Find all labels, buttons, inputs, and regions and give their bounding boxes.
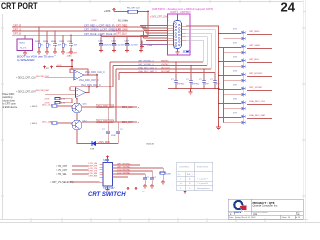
- svg-text:+5VS: +5VS: [56, 65, 62, 67]
- title block frame: [228, 199, 303, 219]
- wire shield return: [141, 41, 143, 46]
- svg-text:DDCCLK: DDCCLK: [161, 67, 171, 69]
- verticals joining rgb wires to bundle: [145, 27, 147, 33]
- svg-text:VGA_DDC_CLK: VGA_DDC_CLK: [249, 100, 266, 103]
- svg-text:47P/NC: 47P/NC: [177, 84, 185, 86]
- svg-text:QUANTA: QUANTA: [234, 211, 242, 214]
- svg-text:CRT SWITCH: CRT SWITCH: [88, 192, 126, 198]
- wire bundle 7 lines: [140, 25, 168, 27]
- title block row 2: [229, 216, 301, 219]
- wire route pin3: [186, 33, 211, 69]
- svg-text:CRT_R: CRT_R: [13, 24, 21, 27]
- svg-text:+3VS: +3VS: [104, 9, 111, 13]
- diode D78: [92, 141, 96, 146]
- svg-text:< CRT_VS (SELECT#): < CRT_VS (SELECT#): [50, 181, 74, 184]
- svg-text:47P: 47P: [216, 84, 220, 86]
- svg-text:< SEL1: < SEL1: [30, 122, 38, 125]
- svg-text:75_1%: 75_1%: [20, 48, 27, 50]
- svg-text:C264: C264: [67, 41, 73, 43]
- wire CRT_B: [12, 34, 141, 36]
- svg-text:A/B_Y: A/B_Y: [187, 173, 194, 176]
- wire VGA_DDC_CLK out: [82, 106, 137, 108]
- wire bottom rail: [92, 143, 118, 145]
- svg-text:CRT_HSYNC: CRT_HSYNC: [249, 73, 263, 75]
- svg-text:+5VS: +5VS: [44, 99, 50, 101]
- IC U23 74HCT257: [103, 163, 113, 187]
- left pin stubs: [100, 165, 104, 183]
- resistor R267: [55, 98, 60, 100]
- rail: [101, 36, 148, 38]
- svg-text:VGA_DDC_CLK: VGA_DDC_CLK: [97, 105, 114, 108]
- svg-text:DDC2B_DAT: DDC2B_DAT: [36, 89, 50, 92]
- diode pack D74: [218, 71, 272, 83]
- connector outline box (magenta): [168, 14, 191, 55]
- wire route pin4: [186, 37, 207, 66]
- svg-text:DDC_DAT: DDC_DAT: [42, 120, 53, 123]
- ground under rail: [189, 89, 193, 95]
- pin leads right: [182, 26, 187, 40]
- svg-text:Y = panel B: Y = panel B: [197, 183, 208, 185]
- resistor R271: [160, 172, 165, 174]
- wire CRT_HSYNC_C: [110, 61, 203, 63]
- svg-text:DDC_CLK: DDC_CLK: [122, 107, 133, 109]
- power arrow right: [184, 191, 186, 194]
- svg-text:R262: R262: [35, 41, 41, 43]
- svg-text:47P: 47P: [205, 84, 209, 86]
- svg-text:100K: 100K: [166, 174, 171, 176]
- diode pack D72: [218, 43, 272, 55]
- svg-text:CRT_HSYNC: CRT_HSYNC: [117, 163, 131, 165]
- wire +5VS rail: [56, 66, 72, 68]
- svg-text:< SEL0: < SEL0: [30, 105, 38, 108]
- op-amp U24A: [74, 70, 84, 80]
- svg-text:VGA_DDC_DAT: VGA_DDC_DAT: [97, 120, 114, 123]
- net texts left: [50, 165, 74, 184]
- svg-text:10U/6.3V: 10U/6.3V: [103, 45, 112, 47]
- svg-text:LCD_HSYNC: LCD_HSYNC: [117, 169, 131, 171]
- capacitor C273: [106, 131, 120, 133]
- ground bundle: [140, 45, 144, 49]
- power +5VS arrow: [71, 59, 74, 62]
- svg-text:+5VS_DDC: +5VS_DDC: [98, 142, 110, 144]
- wire vertical to ddc clk out: [109, 62, 111, 107]
- wire route pin5: [186, 40, 203, 62]
- svg-text:DDC_DAT: DDC_DAT: [122, 121, 133, 124]
- svg-text:CRT_EN: CRT_EN: [89, 176, 98, 178]
- svg-text:>: >: [138, 120, 140, 124]
- svg-text:CRT_HSYNC_C: CRT_HSYNC_C: [138, 60, 155, 62]
- diode pack D77: [218, 113, 272, 125]
- svg-text:DDC2B_CLK: DDC2B_CLK: [36, 76, 49, 78]
- resistor pack RP in purple box: [17, 39, 33, 51]
- wire purple return: [140, 44, 168, 46]
- grounds under termination row: [23, 48, 73, 56]
- svg-text:CRT_VSYNC: CRT_VSYNC: [249, 87, 263, 89]
- input wires: [70, 166, 100, 182]
- junction dots on rail: [175, 61, 216, 89]
- ferrite bead FB_CRT: [128, 10, 138, 13]
- transistor Q17: [72, 120, 82, 130]
- wire vertical to opamp out: [112, 66, 114, 87]
- shield pin top: [177, 15, 179, 21]
- svg-text:FUNCTION: FUNCTION: [197, 167, 208, 169]
- svg-text:CRT_G: CRT_G: [13, 28, 21, 31]
- power +5VS labels: [43, 66, 45, 69]
- svg-text:CRT_BLUE_L(CRT_BLUE_R): CRT_BLUE_L(CRT_BLUE_R): [84, 33, 116, 36]
- ground ESD bus: [216, 125, 221, 130]
- shield pin bottom: [177, 49, 179, 53]
- svg-text:U23: U23: [104, 158, 110, 162]
- op-amp U24B: [76, 88, 86, 98]
- power pin top: [106, 156, 108, 159]
- resistor R268: [55, 102, 60, 104]
- svg-text:C267: C267: [124, 41, 130, 43]
- svg-text:C266: C266: [111, 41, 117, 43]
- svg-text:< DDC2_CRT_CLK: < DDC2_CRT_CLK: [16, 76, 36, 79]
- wire feedback U24A: [70, 69, 97, 75]
- capacitor C275: [151, 171, 153, 178]
- svg-text:Y = panel Y: Y = panel Y: [197, 179, 208, 181]
- svg-text:CRT_VSYNC: CRT_VSYNC: [117, 166, 131, 168]
- wire VGA_DDC_DAT_C: [119, 72, 215, 74]
- svg-text:CRT_BLU: CRT_BLU: [249, 59, 259, 61]
- wire input DAT: [45, 94, 76, 96]
- pin circles col A: [175, 23, 180, 47]
- svg-text:< HS_CRT: < HS_CRT: [56, 165, 68, 168]
- svg-text:VGA_DDC_CLK_C: VGA_DDC_CLK_C: [85, 71, 105, 74]
- wire CRT_VSYNC_C: [113, 65, 207, 67]
- svg-text:0.1U 16V: 0.1U 16V: [129, 45, 138, 47]
- svg-text:R261: R261: [20, 43, 26, 45]
- svg-text:FB_CRT 120: FB_CRT 120: [127, 8, 141, 10]
- svg-text:CRT_GRN: CRT_GRN: [249, 45, 260, 47]
- ground below IC: [106, 186, 110, 192]
- svg-text:HSYNC: HSYNC: [161, 60, 169, 62]
- capacitor C269: [174, 81, 217, 83]
- svg-text:R264: R264: [51, 41, 57, 43]
- svg-text:150P: 150P: [111, 135, 116, 137]
- svg-text:47P/NC: 47P/NC: [192, 84, 200, 86]
- Quanta logo: [234, 201, 248, 214]
- ESD second bus: [223, 48, 225, 123]
- diode pack D73: [218, 57, 272, 69]
- svg-text:VGA_DDC_DAT_C: VGA_DDC_DAT_C: [79, 79, 99, 82]
- svg-text:LCD_VSYNC: LCD_VSYNC: [117, 172, 131, 174]
- left net labels dense: [89, 163, 98, 178]
- wire: [114, 11, 128, 13]
- wire output DAT to right: [96, 75, 98, 87]
- resistor R269: [52, 105, 57, 107]
- wire CRT_R: [12, 26, 146, 28]
- svg-text:_DAC: _DAC: [65, 55, 72, 58]
- svg-text:CRT PORT: CRT PORT: [1, 1, 38, 11]
- svg-text:VGA_DDC_DAT: VGA_DDC_DAT: [249, 114, 266, 117]
- svg-text:VSYNC: VSYNC: [161, 64, 169, 66]
- title block row 1: [229, 211, 300, 214]
- resistor R270: [52, 122, 57, 124]
- diode pack D71: [218, 29, 272, 41]
- svg-text:Sheet 24: Sheet 24: [282, 216, 291, 219]
- svg-text:< VS_CRT: < VS_CRT: [56, 169, 68, 172]
- svg-text:0.1U 16V: 0.1U 16V: [116, 45, 125, 47]
- svg-text:Quanta Computer Inc.: Quanta Computer Inc.: [253, 204, 279, 208]
- svg-text:CRT_RED: CRT_RED: [116, 24, 128, 27]
- svg-text:C265: C265: [98, 41, 104, 43]
- pin leads left: [168, 26, 174, 45]
- power +3VS: [113, 8, 116, 11]
- wire VGA_DDC_CLK_C: [116, 68, 211, 70]
- junction dots on rgb wires: [38, 26, 128, 36]
- svg-text:CRT_RED_L (CRT_RED_R): CRT_RED_L (CRT_RED_R): [84, 25, 115, 28]
- wire collector Q16 up: [76, 99, 78, 103]
- wire route pin2: [186, 30, 215, 73]
- svg-text:R263: R263: [43, 41, 49, 43]
- svg-text:< DDC2_CRT_DAT: < DDC2_CRT_DAT: [16, 91, 36, 94]
- svg-text:CRT_BLU: CRT_BLU: [116, 33, 127, 36]
- wire VGA_DDC_DAT out: [82, 121, 137, 123]
- svg-text:DDCDAT: DDCDAT: [161, 70, 171, 73]
- wire below Q17: [77, 130, 92, 144]
- wire ground rail: [168, 88, 219, 90]
- wire route pin1 to ESD bus: [186, 26, 219, 43]
- wire: [138, 11, 149, 13]
- svg-text:45.1 MHz: 45.1 MHz: [118, 20, 129, 23]
- wire input CLK: [45, 76, 74, 78]
- svg-text:+3VS: +3VS: [91, 20, 97, 22]
- svg-text:VGA_DDC_CLK_C: VGA_DDC_CLK_C: [138, 66, 157, 69]
- wire feedback U24B: [70, 87, 97, 93]
- svg-text:+3VS_CRT_DAC: +3VS_CRT_DAC: [150, 16, 169, 19]
- capacitor C274: [144, 174, 146, 178]
- svg-text:CRT_VSYNC_C: CRT_VSYNC_C: [138, 64, 154, 66]
- wire base Q17: [58, 122, 72, 124]
- svg-text:>: >: [138, 105, 140, 109]
- diode pack D75: [218, 85, 272, 97]
- svg-text:24: 24: [281, 1, 296, 15]
- svg-text:+3VS_CRT: +3VS_CRT: [66, 53, 78, 55]
- ESD ground bus: [218, 26, 220, 125]
- svg-text:VGA_DDC_DAT_C: VGA_DDC_DAT_C: [138, 70, 157, 73]
- svg-text:Hi-impedance: Hi-impedance: [197, 188, 211, 190]
- capacitor C265: [99, 43, 129, 45]
- svg-text:to SPEAKER: to SPEAKER: [17, 58, 35, 62]
- wire CRT_G: [12, 30, 144, 32]
- svg-text:1N4148: 1N4148: [146, 143, 154, 145]
- wire leads down from rgb wires: [39, 27, 71, 43]
- svg-text:JCRT1 : CRT/DVI: JCRT1 : CRT/DVI: [170, 10, 191, 14]
- svg-text:CRT_B: CRT_B: [13, 33, 21, 36]
- wire vertical stub: [118, 73, 120, 81]
- svg-text:< HS_SEL: < HS_SEL: [56, 173, 68, 176]
- svg-text:DDC_CLK: DDC_CLK: [42, 104, 53, 106]
- connector body DB15: [174, 21, 182, 49]
- svg-text:VGA_DDC_DAT_C: VGA_DDC_DAT_C: [81, 84, 101, 87]
- svg-text:CRT_GRN: CRT_GRN: [116, 28, 128, 31]
- right pin wires: [113, 165, 164, 177]
- svg-text:C268: C268: [147, 45, 153, 47]
- svg-text:C263: C263: [59, 41, 65, 43]
- svg-text:CONTROL: CONTROL: [179, 167, 190, 169]
- wire base Q16: [58, 105, 72, 107]
- resistor R262: [38, 43, 73, 47]
- transistor Q16: [72, 103, 82, 113]
- wire vertical to ddc dat out: [115, 69, 117, 122]
- net labels right of U23: [117, 163, 131, 174]
- svg-text:CRT_RED: CRT_RED: [249, 31, 260, 33]
- grounds caps row: [99, 49, 143, 53]
- svg-text:& ESD device: & ESD device: [3, 106, 18, 109]
- wire between transistors: [76, 113, 78, 120]
- svg-text:Date: Friday, March 14, 2003: Date: Friday, March 14, 2003: [229, 216, 256, 219]
- diode pack D76: [218, 99, 272, 111]
